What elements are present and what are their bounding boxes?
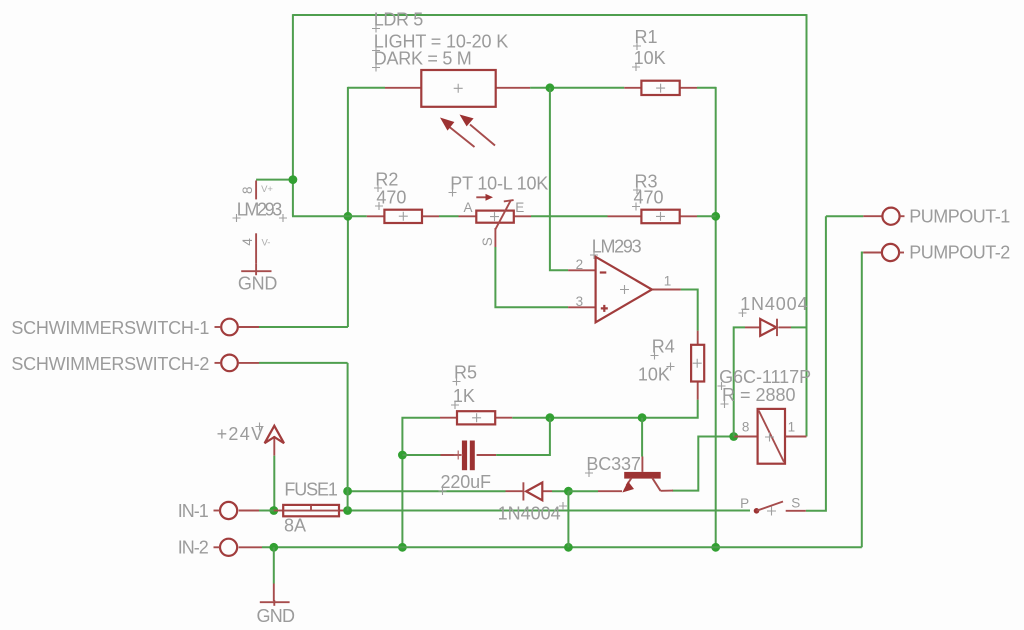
wire output to R4 <box>681 290 698 331</box>
wire PUMPOUT-1 row <box>826 215 863 217</box>
label R2 value 470 <box>375 187 406 210</box>
resistor R3 body <box>641 210 679 224</box>
wire LDR to R1 <box>530 87 624 89</box>
svg-text:PUMPOUT-2: PUMPOUT-2 <box>909 243 1010 263</box>
wire pot wiper vertical <box>494 228 496 247</box>
wire diode D3 pin left <box>745 326 760 328</box>
wire R4 pin top <box>697 331 699 345</box>
svg-text:8: 8 <box>240 186 255 194</box>
wire LM293 pin 8 V+ <box>255 181 257 200</box>
wire cap pin right <box>477 454 497 456</box>
resistor R1 body <box>641 81 679 95</box>
wire cap pin left <box>441 454 462 456</box>
wire cap to riser <box>496 418 550 455</box>
label R5 <box>453 362 478 385</box>
svg-text:SCHWIMMERSWITCH-2: SCHWIMMERSWITCH-2 <box>11 354 209 374</box>
node junction left trunk V+ <box>289 175 298 184</box>
wire IN-1 to fuse <box>259 510 283 512</box>
svg-text:S: S <box>791 496 800 511</box>
wire diode D3 to right trunk <box>791 326 807 328</box>
svg-text:10K: 10K <box>634 48 666 68</box>
wire SCHWIMMERSWITCH-2 row <box>239 362 348 364</box>
wire trunk B vertical <box>715 87 717 547</box>
wire R1 pin left <box>624 87 641 89</box>
op-amp U1 triangle <box>596 257 652 323</box>
node junction bottom row left riser <box>398 543 407 552</box>
svg-text:V+: V+ <box>261 184 273 195</box>
svg-text:E: E <box>515 200 524 215</box>
wire LDR row left <box>348 87 385 89</box>
wire R5 pin left <box>440 417 457 419</box>
wire top rail horizontal <box>293 14 807 16</box>
wire R2 row from left trunk <box>292 215 367 217</box>
label 220uF <box>439 472 492 495</box>
pin label 1 relay <box>788 420 796 435</box>
node junction trunk A R2 row <box>344 212 353 221</box>
wire wiper to pin3 <box>495 247 568 307</box>
node junction bottom row GND <box>269 543 278 552</box>
wire R1 to trunk B corner <box>697 87 716 89</box>
wire BC337 emitter lead <box>598 490 622 492</box>
wire BC337 collector to relay <box>672 437 734 491</box>
wire R3 to trunk B <box>697 215 716 217</box>
pin label P <box>740 496 749 511</box>
node junction LDR-R1 <box>546 83 555 92</box>
wire right trunk vertical <box>806 14 808 436</box>
node junction fuse right <box>343 506 352 515</box>
svg-text:PUMPOUT-1: PUMPOUT-1 <box>909 206 1010 226</box>
wire freewheel row left <box>348 490 506 492</box>
label GND lower <box>257 606 296 626</box>
label R3 value 470 <box>632 188 664 211</box>
svg-text:LM293: LM293 <box>237 200 282 220</box>
svg-text:S: S <box>480 237 495 246</box>
label DARK = 5 M <box>372 48 472 71</box>
node junction IN-1 +24V <box>269 506 278 515</box>
switch S1 lever <box>757 502 784 511</box>
pin label 3 <box>576 294 584 309</box>
svg-text:GND: GND <box>257 606 296 626</box>
label 8A <box>284 516 306 536</box>
node junction trunk B bottom row <box>711 543 720 552</box>
wire LM293 pin 4 V- <box>255 233 257 263</box>
label R4 <box>651 336 675 359</box>
resistor R4 body <box>691 345 704 382</box>
wire relay pin 8 <box>734 436 758 438</box>
label G6C-1117P <box>718 367 812 390</box>
pin label S switch <box>791 496 800 511</box>
transistor Q1 base pin <box>641 418 643 472</box>
transistor Q1 collector lead <box>652 478 673 491</box>
wire diode D2 pin left <box>506 490 524 492</box>
label LDR 5 <box>372 9 423 32</box>
svg-text:+24V: +24V <box>217 424 264 444</box>
wire inverting input net vertical <box>550 88 568 270</box>
svg-text:DARK = 5 M: DARK = 5 M <box>374 48 472 68</box>
wire pot pin A <box>459 215 477 217</box>
wire R2 pin right <box>422 215 439 217</box>
op-amp U1 origin cross <box>620 285 629 294</box>
label R2 <box>374 169 398 192</box>
label SCHWIMMERSWITCH-1 <box>11 318 209 338</box>
wire switch S to PUMPOUT riser <box>806 216 826 511</box>
node junction cap row left <box>398 451 407 460</box>
pin label S rotated <box>480 237 495 246</box>
wire cap row left <box>402 454 440 456</box>
pin label V+ <box>261 184 273 195</box>
wire R5 to left riser <box>402 418 440 548</box>
wire emitter riser down <box>567 491 569 547</box>
wire PUMPOUT-2 riser <box>862 253 864 548</box>
transistor Q1 BC337 base bar <box>624 472 661 479</box>
wire IN-1 pin <box>239 510 259 512</box>
svg-text:A: A <box>464 200 473 215</box>
wire LDR pin right <box>496 87 530 89</box>
svg-text:R1: R1 <box>635 27 658 47</box>
svg-text:R2: R2 <box>375 169 398 189</box>
wire +24V stem <box>273 436 275 510</box>
LDR5 light arrow 2 <box>460 115 496 146</box>
connector IN-2 circle <box>214 539 238 556</box>
wire PUMPOUT-2 pin <box>863 252 882 254</box>
node junction trunk B R3 row <box>711 212 720 221</box>
label PUMPOUT-1 <box>909 206 1010 226</box>
svg-text:SCHWIMMERSWITCH-1: SCHWIMMERSWITCH-1 <box>11 318 209 338</box>
svg-text:P: P <box>740 496 749 511</box>
connector SCHWIMMERSWITCH-1 circle <box>215 319 238 336</box>
wire GND2 stem <box>273 547 275 601</box>
label PUMPOUT-2 <box>909 243 1010 263</box>
label IN-2 <box>178 538 209 558</box>
connector PUMPOUT-2 circle <box>882 244 904 261</box>
svg-text:1K: 1K <box>453 386 475 406</box>
label IN-1 <box>178 501 209 521</box>
svg-text:R5: R5 <box>454 362 477 382</box>
wire SCHWIMMERSWITCH-2 riser <box>347 363 349 511</box>
svg-text:2: 2 <box>576 257 584 272</box>
svg-text:FUSE1: FUSE1 <box>284 479 338 499</box>
wire pot E to R3 <box>531 215 608 217</box>
wire op-amp pin 3 <box>568 306 596 308</box>
wire R1 pin right <box>680 87 697 89</box>
svg-text:V-: V- <box>262 238 271 249</box>
wire diode D2 to emitter node <box>552 490 568 492</box>
svg-text:10K: 10K <box>638 364 670 384</box>
wire R5 pin right <box>495 417 512 419</box>
wire SCHWIMMERSWITCH-1 row <box>239 326 348 328</box>
node junction emitter node <box>564 487 573 496</box>
pin label 8 rotated <box>240 186 255 194</box>
LDR5 light arrow 1 <box>440 118 475 148</box>
label R1 <box>633 27 658 50</box>
node junction bottom row diode riser <box>564 543 573 552</box>
wire R4 pin bottom <box>697 382 699 400</box>
label R1 value 10K <box>632 48 666 71</box>
label FUSE1 <box>284 479 338 499</box>
switch S1 contact P <box>754 508 760 514</box>
capacitor C1 plates <box>454 441 475 471</box>
fuse FUSE1 body <box>283 505 339 516</box>
svg-text:R4: R4 <box>652 336 675 356</box>
wire PUMPOUT-1 pin <box>863 215 883 217</box>
label SCHWIMMERSWITCH-2 <box>11 354 209 374</box>
svg-text:LM293: LM293 <box>592 236 642 256</box>
potentiometer PT adjust arrow <box>476 194 493 201</box>
diode D3 1N4004 body <box>760 319 777 336</box>
label BC337 <box>585 454 641 477</box>
label LM293 power symbol <box>233 200 288 223</box>
svg-text:IN-1: IN-1 <box>178 501 209 521</box>
node junction feedback row cap riser <box>546 413 555 422</box>
op-amp U1 plus mark <box>601 305 608 312</box>
svg-text:IN-2: IN-2 <box>178 538 209 558</box>
node junction feedback row BC337 base <box>638 413 647 422</box>
wire R2 pin left <box>367 215 385 217</box>
wire diode D2 pin right <box>542 490 552 492</box>
svg-text:220uF: 220uF <box>441 472 492 492</box>
label PT 10-L 10K <box>449 174 549 197</box>
svg-text:LDR 5: LDR 5 <box>374 9 424 29</box>
svg-text:1N4004: 1N4004 <box>740 294 808 314</box>
svg-text:4: 4 <box>240 238 255 246</box>
wire R4 to feedback row <box>512 400 698 418</box>
pin label A <box>464 200 473 215</box>
wire diode D3 pin right <box>779 326 792 328</box>
pin label V- <box>262 238 271 249</box>
op-amp U1 minus mark <box>600 271 607 273</box>
ground GND1 bar <box>241 264 271 275</box>
wire R3 pin left <box>608 215 642 217</box>
svg-text:PT 10-L 10K: PT 10-L 10K <box>450 174 548 194</box>
wire fuse right stub <box>339 510 348 512</box>
wire switch row <box>348 510 750 512</box>
wire trunk A vertical <box>347 87 349 327</box>
label R = 2880 <box>721 385 796 408</box>
wire emitter node to BC337 <box>568 490 598 492</box>
pin label 8 relay <box>742 420 750 435</box>
wire pot pin E <box>514 215 531 217</box>
label R3 <box>633 171 658 194</box>
svg-text:BC337: BC337 <box>586 454 641 474</box>
pin label 4 rotated <box>240 238 255 246</box>
svg-text:470: 470 <box>376 187 406 207</box>
label LIGHT = 10-20 K <box>372 32 508 55</box>
wire diode D3 riser <box>734 327 745 436</box>
pin label 2 <box>576 257 584 272</box>
svg-text:1: 1 <box>788 420 796 435</box>
label 1N4004 lower <box>498 502 567 523</box>
wire LDR pin left <box>385 87 421 89</box>
label 1N4004 upper <box>739 294 808 317</box>
svg-text:8: 8 <box>742 420 750 435</box>
wire R3 pin right <box>680 215 697 217</box>
resistor LDR5 body <box>421 70 495 107</box>
switch S1 origin cross <box>767 507 776 516</box>
pin label 1 op-amp output <box>664 273 672 288</box>
wire left trunk vertical <box>292 14 294 216</box>
potentiometer PT body <box>476 211 514 223</box>
wire op-amp pin 2 <box>568 269 596 271</box>
switch S1 contact S lead <box>786 510 806 512</box>
wire op-amp output pin 1 <box>652 289 681 291</box>
label +24V <box>217 423 264 445</box>
node junction freewheel row tap <box>343 487 352 496</box>
connector PUMPOUT-1 circle <box>882 208 904 225</box>
resistor R5 body <box>457 411 495 424</box>
svg-text:1: 1 <box>664 273 672 288</box>
potentiometer PT wiper <box>495 200 513 229</box>
label GND upper <box>238 274 278 294</box>
wire V+ tap <box>256 179 293 181</box>
wire relay pin 1 <box>785 436 807 438</box>
svg-text:1N4004: 1N4004 <box>498 503 561 523</box>
label R4 value 10K <box>638 363 675 385</box>
transistor Q1 emitter with arrow <box>622 478 634 493</box>
relay K1 coil body <box>758 409 785 464</box>
diode D2 1N4004 body <box>523 482 542 500</box>
svg-text:470: 470 <box>634 188 664 208</box>
wire bottom row <box>239 546 862 548</box>
supply +24V arrow symbol <box>265 426 284 443</box>
svg-text:8A: 8A <box>284 516 306 536</box>
pin label E <box>515 200 524 215</box>
ground GND2 bar <box>260 600 290 606</box>
connector IN-1 circle <box>214 502 238 519</box>
svg-text:GND: GND <box>238 274 278 294</box>
label LM293 op-amp <box>590 236 642 259</box>
connector SCHWIMMERSWITCH-2 circle <box>215 355 238 372</box>
wire R2 to pot A <box>439 215 459 217</box>
node junction relay coil node <box>729 432 738 441</box>
label R5 value 1K <box>451 386 475 409</box>
resistor R2 body <box>384 210 422 223</box>
svg-text:R = 2880: R = 2880 <box>722 385 796 405</box>
svg-text:3: 3 <box>576 294 584 309</box>
